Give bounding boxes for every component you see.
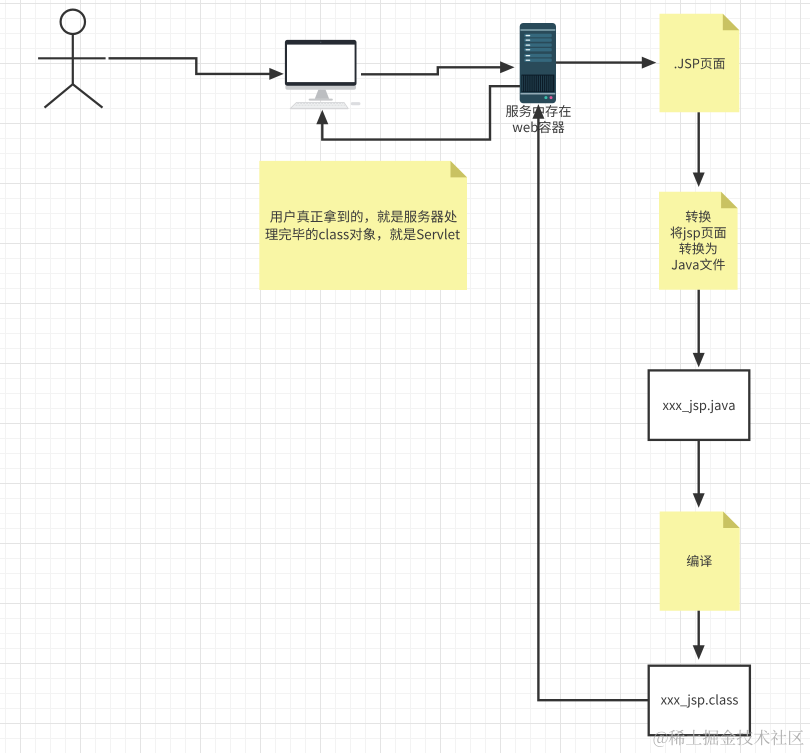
label: 服务中存在 web容器 xyxy=(506,105,571,133)
monitor (PC) icon xyxy=(285,40,361,109)
sticky note: 编译 xyxy=(660,512,740,611)
actor stick figure xyxy=(38,10,106,108)
wire actor to monitor xyxy=(109,58,272,74)
wire monitor to server xyxy=(361,67,502,74)
server tower icon xyxy=(520,23,556,103)
wire server to JSP note xyxy=(556,61,644,63)
watermark @稀土掘金技术社区 xyxy=(654,730,804,747)
sticky note: 转换/将jsp页面/转换为/Java文件 xyxy=(659,192,738,290)
sticky note: annotation about Servlet xyxy=(259,161,467,290)
wire 转换 note to xxx_jsp.java box xyxy=(698,290,700,355)
wire JSP note to 转换 note xyxy=(698,112,700,174)
wire server back to monitor xyxy=(322,86,520,139)
box: xxx_jsp.class xyxy=(649,666,750,736)
wire xxx_jsp.class box back up to server xyxy=(538,117,648,700)
sticky note: JSP页面 xyxy=(660,14,740,113)
box: xxx_jsp.java xyxy=(649,370,750,440)
wire 编译 note to xxx_jsp.class box xyxy=(698,611,700,647)
wire xxx_jsp.java box to 编译 note xyxy=(698,440,700,495)
